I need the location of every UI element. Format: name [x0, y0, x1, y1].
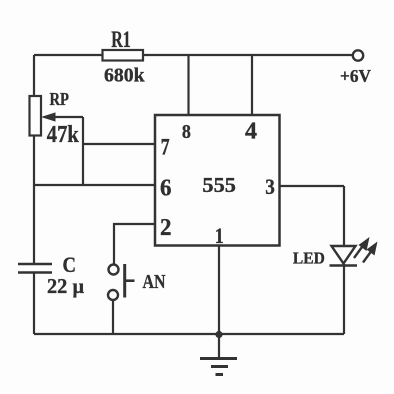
junction dot ground node — [215, 331, 222, 338]
wire pin 1 to ground node — [218, 245, 220, 334]
wire pin 2 — [114, 224, 155, 264]
svg-text:3: 3 — [265, 174, 275, 199]
svg-text:6: 6 — [160, 175, 172, 202]
wire RP wiper vertical — [82, 117, 84, 185]
IC U1 555 — [155, 115, 280, 246]
potentiometer RP — [30, 89, 84, 148]
svg-text:47k: 47k — [47, 122, 80, 148]
svg-text:555: 555 — [202, 173, 236, 197]
wire top supply rail — [34, 54, 352, 56]
terminal +6V — [340, 50, 371, 86]
wire LED cathode to ground rail — [343, 264, 345, 334]
capacitor C — [18, 252, 84, 298]
wire left vertical upper — [33, 55, 35, 96]
wire pin 3 — [279, 185, 344, 187]
svg-text:LED: LED — [293, 249, 325, 268]
svg-text:680k: 680k — [104, 65, 145, 87]
svg-text:RP: RP — [49, 89, 69, 109]
wire left vertical lower — [33, 273, 35, 334]
svg-text:22 μ: 22 μ — [47, 274, 84, 298]
svg-text:1: 1 — [215, 223, 224, 248]
svg-text:4: 4 — [245, 118, 257, 145]
svg-text:AN: AN — [143, 271, 166, 293]
resistor R1 — [103, 27, 146, 87]
wire bottom ground rail — [34, 333, 344, 335]
svg-text:7: 7 — [161, 134, 170, 159]
svg-text:2: 2 — [160, 214, 172, 241]
wire pin 8 to supply rail — [187, 55, 189, 115]
svg-text:8: 8 — [182, 121, 191, 143]
wire pin 3 vertical to LED anode — [343, 186, 345, 247]
wire button to ground rail — [112, 300, 114, 334]
wire pin 6 — [34, 184, 155, 186]
wire pin 7 — [83, 143, 155, 145]
LED D1 — [293, 237, 378, 268]
pushbutton AN — [108, 264, 166, 300]
wire pin 4 to supply rail — [251, 55, 253, 115]
svg-text:R1: R1 — [111, 27, 131, 52]
svg-text:+6V: +6V — [340, 66, 371, 86]
ground — [200, 334, 237, 375]
wire left vertical middle — [33, 135, 35, 264]
